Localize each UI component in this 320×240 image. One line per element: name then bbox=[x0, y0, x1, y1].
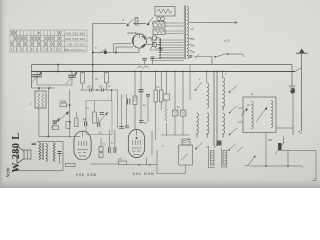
svg-text:150: 150 bbox=[191, 45, 196, 48]
svg-text:MW 518-580: MW 518-580 bbox=[65, 37, 85, 41]
svg-text:125: 125 bbox=[191, 51, 196, 54]
svg-text:W 280 L: W 280 L bbox=[11, 133, 22, 173]
svg-text:1 2 3 4 5 6 7 8 9 10 11: 1 2 3 4 5 6 7 8 9 10 11 bbox=[11, 48, 70, 52]
svg-text:a20: a20 bbox=[268, 139, 273, 142]
svg-text:KW 200-580: KW 200-580 bbox=[66, 31, 86, 35]
svg-text:20n: 20n bbox=[87, 86, 92, 89]
svg-text:220: 220 bbox=[191, 38, 196, 41]
svg-text:Seibt: Seibt bbox=[7, 167, 12, 178]
svg-text:LW 75-187: LW 75-187 bbox=[67, 42, 85, 46]
svg-text:REN 904: REN 904 bbox=[132, 172, 154, 176]
svg-text:Tonabnehmer: Tonabnehmer bbox=[65, 48, 86, 52]
svg-text:TRGB: TRGB bbox=[60, 100, 67, 103]
svg-text:20n: 20n bbox=[99, 86, 104, 89]
svg-text:RGN354: RGN354 bbox=[128, 31, 139, 35]
svg-text:a 20: a 20 bbox=[224, 39, 230, 43]
svg-text:w: w bbox=[206, 146, 208, 149]
svg-text:0,1: 0,1 bbox=[118, 157, 122, 161]
svg-text:RES 964: RES 964 bbox=[75, 173, 96, 177]
